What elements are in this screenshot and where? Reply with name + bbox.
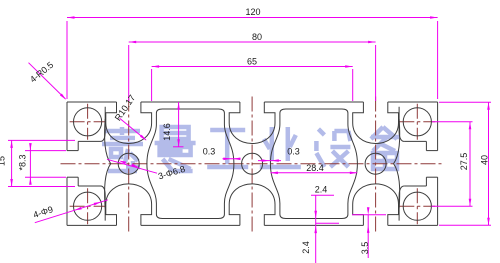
leader 4-R0.5 [29, 63, 66, 99]
center hole 3 (d6.8) [365, 153, 386, 174]
dimension 3.5 [367, 215, 369, 258]
svg-text:2.4: 2.4 [301, 241, 311, 254]
bottom T-slot 2 [229, 184, 275, 226]
svg-text:120: 120 [245, 7, 260, 17]
leader R10.17 [120, 118, 146, 140]
svg-text:27.5: 27.5 [459, 153, 469, 171]
svg-text:3.5: 3.5 [360, 242, 370, 255]
top T-slot 2 [229, 102, 275, 144]
svg-text:0.3: 0.3 [287, 147, 300, 157]
svg-text:0.3: 0.3 [203, 147, 216, 157]
dimension 14.6 [178, 102, 180, 147]
svg-text:40: 40 [480, 155, 490, 165]
center hole 2 (d6.8) [242, 153, 263, 174]
dimension 120 [67, 17, 438, 19]
svg-text:*8.3: *8.3 [18, 154, 28, 170]
dimension 2.4 lower [316, 222, 339, 224]
svg-text:14.6: 14.6 [162, 123, 172, 141]
centerlines [61, 97, 445, 232]
bottom T-slot 3 [353, 184, 399, 226]
svg-text:65: 65 [247, 57, 257, 67]
dimension 65 [152, 66, 353, 68]
right end slot [425, 141, 427, 150]
dimension 8.3 [29, 145, 31, 183]
corner hole 4 (d9) [403, 192, 431, 220]
dimension 0.3 right [258, 160, 281, 162]
svg-text:15: 15 [0, 156, 7, 166]
dimension 80 [129, 41, 376, 43]
corner hole 1 (d9) [74, 108, 102, 136]
top T-slot 1 [106, 102, 152, 144]
svg-text:28.4: 28.4 [306, 163, 324, 173]
profile outer faces [67, 102, 438, 225]
big cavity 2 [270, 109, 357, 219]
top T-slot 3 [353, 102, 399, 144]
dimension 28.4 [270, 172, 357, 174]
corner hole 2 (d9) [403, 108, 431, 136]
svg-text:80: 80 [252, 32, 262, 42]
corner hole 3 (d9) [74, 192, 102, 220]
bottom T-slot 1 [106, 184, 152, 226]
big cavity 1 [147, 109, 234, 219]
watermark text [102, 127, 399, 171]
dimension 15 [11, 140, 13, 186]
left end slot [77, 141, 79, 150]
leader 3-d6.8 [107, 159, 157, 173]
dimension 0.3 left [223, 158, 241, 160]
center hole 1 (d6.8) [118, 153, 139, 174]
leader 4-d9 [35, 200, 108, 223]
dimension 40 [488, 102, 490, 225]
svg-text:2.4: 2.4 [315, 185, 328, 195]
dimension 27.5 [469, 122, 471, 206]
dimension 2.4 upper [311, 194, 334, 196]
